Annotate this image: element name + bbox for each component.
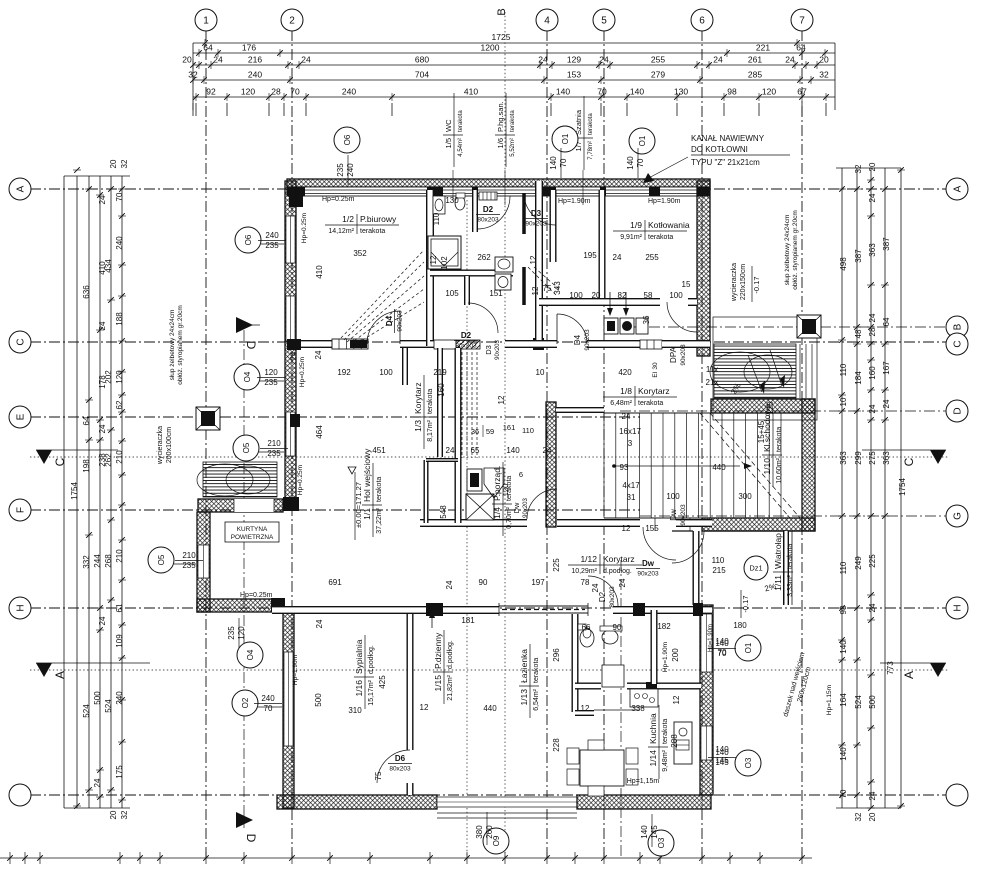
svg-text:244: 244 <box>93 554 102 568</box>
svg-text:KURTYNA: KURTYNA <box>237 526 268 533</box>
svg-text:80x203: 80x203 <box>389 766 411 773</box>
svg-text:130: 130 <box>445 196 459 205</box>
svg-text:24: 24 <box>868 603 877 612</box>
svg-text:24: 24 <box>213 55 223 65</box>
svg-text:1/10: 1/10 <box>762 458 772 475</box>
svg-text:Korytarz: Korytarz <box>603 554 635 564</box>
svg-text:Łazienka: Łazienka <box>519 649 529 683</box>
svg-text:Hp=1.90m: Hp=1.90m <box>292 655 299 685</box>
svg-text:20: 20 <box>109 159 118 168</box>
svg-text:O5: O5 <box>242 442 251 453</box>
svg-text:terakota: terakota <box>648 234 673 241</box>
svg-text:EI 30: EI 30 <box>652 362 659 378</box>
svg-text:140: 140 <box>640 825 649 839</box>
svg-text:451: 451 <box>372 446 386 455</box>
svg-text:235: 235 <box>264 378 278 387</box>
svg-text:120: 120 <box>762 87 776 97</box>
svg-text:10: 10 <box>839 397 848 406</box>
svg-text:Hp=0.25m: Hp=0.25m <box>240 592 273 599</box>
svg-text:32: 32 <box>854 812 863 821</box>
svg-text:0,70m²: 0,70m² <box>506 506 513 528</box>
svg-text:524: 524 <box>104 699 113 713</box>
svg-text:268: 268 <box>104 554 113 568</box>
svg-text:terakota: terakota <box>588 113 594 135</box>
svg-text:12: 12 <box>497 395 506 404</box>
svg-text:225: 225 <box>868 554 877 568</box>
svg-text:210: 210 <box>115 450 124 464</box>
svg-text:90x203: 90x203 <box>680 344 687 366</box>
svg-text:180: 180 <box>733 621 747 630</box>
svg-text:Hp=0.25m: Hp=0.25m <box>297 465 304 495</box>
svg-text:80x203: 80x203 <box>477 217 499 224</box>
svg-text:6: 6 <box>699 16 705 27</box>
svg-text:410: 410 <box>315 265 324 279</box>
svg-text:220x150cm: 220x150cm <box>740 264 747 300</box>
svg-text:1/5: 1/5 <box>444 138 453 148</box>
svg-text:12: 12 <box>531 286 540 295</box>
svg-text:32: 32 <box>854 164 863 173</box>
svg-text:Kuchnia: Kuchnia <box>648 713 658 744</box>
svg-text:24: 24 <box>543 446 552 455</box>
svg-text:obłóż. styropianem gr.20cm: obłóż. styropianem gr.20cm <box>177 305 184 384</box>
svg-text:12: 12 <box>420 703 429 712</box>
svg-text:POWIETRZNA: POWIETRZNA <box>231 534 274 541</box>
svg-text:524: 524 <box>854 695 863 709</box>
svg-text:240: 240 <box>346 163 355 177</box>
svg-text:D6: D6 <box>395 754 406 763</box>
svg-text:10,60m²: 10,60m² <box>776 457 783 483</box>
svg-text:24: 24 <box>314 350 323 359</box>
svg-text:90x203: 90x203 <box>680 504 687 526</box>
svg-text:Wiatrołap: Wiatrołap <box>773 533 783 569</box>
svg-text:200x100cm: 200x100cm <box>166 427 173 463</box>
svg-text:1754: 1754 <box>70 482 79 500</box>
svg-text:235: 235 <box>182 561 196 570</box>
svg-text:636: 636 <box>82 285 91 299</box>
svg-text:90x203: 90x203 <box>397 310 404 332</box>
svg-text:terakota: terakota <box>427 389 434 414</box>
svg-text:H: H <box>953 604 964 611</box>
svg-text:32: 32 <box>120 810 129 819</box>
svg-text:A: A <box>53 671 67 679</box>
svg-text:Hp=1.90m: Hp=1.90m <box>648 198 681 205</box>
svg-text:182: 182 <box>657 622 671 631</box>
svg-text:7: 7 <box>799 16 805 27</box>
svg-text:11x: 11x <box>706 365 718 374</box>
svg-text:90x203: 90x203 <box>525 221 547 228</box>
svg-text:216: 216 <box>248 55 262 65</box>
svg-text:31: 31 <box>627 493 636 502</box>
svg-text:210: 210 <box>115 549 124 563</box>
svg-text:Dw: Dw <box>669 509 678 521</box>
svg-text:Korytarz: Korytarz <box>413 382 423 414</box>
svg-text:363: 363 <box>868 243 877 257</box>
svg-text:2: 2 <box>289 16 295 27</box>
svg-text:75: 75 <box>543 284 552 293</box>
svg-text:75: 75 <box>374 771 383 780</box>
svg-text:D2: D2 <box>598 591 607 602</box>
svg-text:12: 12 <box>529 255 538 264</box>
svg-text:36: 36 <box>642 315 651 324</box>
svg-text:240: 240 <box>248 70 262 80</box>
svg-text:105: 105 <box>445 289 459 298</box>
svg-text:24: 24 <box>868 791 877 800</box>
svg-text:1754: 1754 <box>898 478 907 496</box>
svg-text:4,54m²: 4,54m² <box>458 138 464 157</box>
svg-text:160: 160 <box>868 366 877 380</box>
svg-text:140: 140 <box>556 87 570 97</box>
svg-text:24: 24 <box>98 616 107 625</box>
svg-text:terakota: terakota <box>510 110 516 132</box>
svg-text:24: 24 <box>713 55 723 65</box>
svg-text:21,82m²: 21,82m² <box>447 674 454 700</box>
svg-text:120: 120 <box>237 626 246 640</box>
svg-text:92: 92 <box>206 87 216 97</box>
svg-text:279: 279 <box>651 70 665 80</box>
svg-text:66: 66 <box>582 623 591 632</box>
svg-text:21x: 21x <box>706 378 719 387</box>
svg-text:Sypialnia: Sypialnia <box>354 639 364 674</box>
svg-text:D3: D3 <box>531 209 542 218</box>
svg-text:15,17m²: 15,17m² <box>368 679 375 705</box>
svg-text:24: 24 <box>613 253 622 262</box>
svg-text:249: 249 <box>854 556 863 570</box>
svg-text:1/14: 1/14 <box>648 750 658 767</box>
svg-text:C: C <box>53 457 67 466</box>
svg-text:363: 363 <box>839 451 848 465</box>
svg-text:90x203: 90x203 <box>523 497 529 517</box>
svg-text:64: 64 <box>882 317 891 326</box>
svg-text:24: 24 <box>445 580 454 589</box>
svg-text:285: 285 <box>748 70 762 80</box>
svg-text:61: 61 <box>115 603 124 612</box>
svg-text:59: 59 <box>486 427 494 436</box>
svg-text:1/13: 1/13 <box>519 689 529 706</box>
svg-text:343: 343 <box>553 281 562 295</box>
svg-text:773: 773 <box>886 661 895 675</box>
svg-text:70: 70 <box>636 158 645 167</box>
svg-text:58: 58 <box>644 291 653 300</box>
svg-text:500: 500 <box>314 693 323 707</box>
svg-text:110: 110 <box>839 363 848 376</box>
svg-text:140: 140 <box>715 745 729 754</box>
svg-text:176: 176 <box>242 43 256 53</box>
svg-text:24: 24 <box>301 55 311 65</box>
svg-text:210: 210 <box>182 551 196 560</box>
svg-text:Hp=1.90m: Hp=1.90m <box>708 624 714 652</box>
svg-text:288: 288 <box>670 734 679 748</box>
svg-text:terakota: terakota <box>360 228 385 235</box>
svg-text:P.dzienny: P.dzienny <box>433 632 443 669</box>
svg-text:O4: O4 <box>246 649 255 660</box>
svg-text:704: 704 <box>415 70 429 80</box>
svg-text:24: 24 <box>93 778 102 787</box>
svg-text:12: 12 <box>672 695 681 704</box>
svg-text:P.biurowy: P.biurowy <box>360 214 397 224</box>
svg-text:B: B <box>496 8 508 15</box>
svg-text:O1: O1 <box>561 133 570 144</box>
svg-text:P.hg.san.: P.hg.san. <box>496 101 505 132</box>
svg-text:12: 12 <box>429 255 438 264</box>
svg-text:255: 255 <box>651 55 665 65</box>
svg-text:D3: D3 <box>484 345 493 355</box>
svg-text:O4: O4 <box>243 371 252 382</box>
svg-text:548: 548 <box>439 505 448 519</box>
svg-text:299: 299 <box>854 451 863 465</box>
svg-text:151: 151 <box>489 289 503 298</box>
svg-text:120: 120 <box>241 87 255 97</box>
svg-text:terakota: terakota <box>638 400 663 407</box>
svg-text:8,17m²: 8,17m² <box>427 419 434 441</box>
svg-text:37,22m²: 37,22m² <box>376 507 383 533</box>
svg-text:terakota: terakota <box>776 427 783 452</box>
svg-text:A: A <box>16 185 27 192</box>
svg-text:1/6: 1/6 <box>496 138 505 148</box>
svg-text:500: 500 <box>93 691 102 705</box>
svg-text:F: F <box>16 507 27 513</box>
svg-text:Hp=0.25m: Hp=0.25m <box>301 213 308 243</box>
svg-text:48: 48 <box>854 329 863 338</box>
svg-text:129: 129 <box>567 55 581 65</box>
svg-text:Hp=1.90m: Hp=1.90m <box>558 198 591 205</box>
svg-text:Dw: Dw <box>642 559 655 568</box>
svg-text:Hp=1.15m: Hp=1.15m <box>826 685 833 715</box>
svg-text:90x203: 90x203 <box>584 329 591 351</box>
svg-text:140: 140 <box>715 637 729 646</box>
svg-text:363: 363 <box>882 451 891 465</box>
svg-text:7,78m²: 7,78m² <box>588 141 594 160</box>
svg-text:d.podłog.: d.podłog. <box>447 640 454 669</box>
svg-text:140: 140 <box>626 156 635 170</box>
svg-text:140: 140 <box>549 156 558 170</box>
svg-text:70: 70 <box>559 158 568 167</box>
svg-text:Hp=1.90m: Hp=1.90m <box>662 642 669 672</box>
svg-text:24: 24 <box>622 412 631 421</box>
svg-text:410: 410 <box>98 261 107 275</box>
svg-text:9,48m²: 9,48m² <box>662 749 669 771</box>
svg-text:410: 410 <box>464 87 478 97</box>
svg-text:D: D <box>953 407 964 414</box>
svg-text:E: E <box>16 413 27 420</box>
svg-text:6,48m²: 6,48m² <box>610 400 632 407</box>
svg-text:90: 90 <box>613 623 622 632</box>
svg-text:524: 524 <box>82 704 91 718</box>
svg-text:20: 20 <box>819 55 829 65</box>
svg-text:D2: D2 <box>461 331 472 340</box>
svg-text:24: 24 <box>98 321 107 330</box>
svg-text:DPA: DPA <box>669 346 678 363</box>
svg-text:WC: WC <box>444 119 453 132</box>
svg-text:82: 82 <box>618 291 627 300</box>
svg-text:62: 62 <box>115 400 124 409</box>
svg-text:wycieraczka: wycieraczka <box>157 426 164 465</box>
svg-text:70: 70 <box>115 192 124 201</box>
svg-text:d.podłog.: d.podłog. <box>603 568 632 575</box>
svg-text:109: 109 <box>115 634 124 648</box>
svg-text:Dz1: Dz1 <box>749 564 762 573</box>
svg-text:691: 691 <box>328 578 342 587</box>
svg-text:98: 98 <box>727 87 737 97</box>
svg-text:słup żelbetowy 24x24cm: słup żelbetowy 24x24cm <box>784 215 791 286</box>
svg-text:G: G <box>953 512 964 520</box>
svg-text:210: 210 <box>267 439 281 448</box>
svg-text:215: 215 <box>712 566 726 575</box>
svg-text:100: 100 <box>379 368 393 377</box>
svg-text:20: 20 <box>868 812 877 821</box>
svg-text:Dw: Dw <box>512 502 521 513</box>
svg-text:425: 425 <box>378 675 387 689</box>
svg-text:O6: O6 <box>244 234 253 245</box>
svg-text:20: 20 <box>182 55 192 65</box>
svg-text:1/8: 1/8 <box>620 386 632 396</box>
svg-text:O1: O1 <box>744 642 753 653</box>
svg-text:65: 65 <box>471 446 480 455</box>
svg-text:140: 140 <box>839 747 848 761</box>
svg-text:100: 100 <box>669 291 683 300</box>
svg-text:24: 24 <box>618 578 627 587</box>
svg-text:440: 440 <box>483 704 497 713</box>
svg-text:145: 145 <box>715 756 729 765</box>
svg-text:120: 120 <box>264 368 278 377</box>
svg-text:225: 225 <box>552 558 561 572</box>
svg-text:262: 262 <box>477 253 491 262</box>
svg-text:90x203: 90x203 <box>637 571 659 578</box>
svg-text:70: 70 <box>264 704 273 713</box>
svg-text:1/12: 1/12 <box>580 554 597 564</box>
svg-text:C: C <box>16 338 27 345</box>
svg-text:80x203: 80x203 <box>455 343 477 350</box>
svg-text:200: 200 <box>671 648 680 662</box>
svg-text:Hol wejściowy: Hol wejściowy <box>362 448 372 502</box>
svg-text:1/2: 1/2 <box>342 214 354 224</box>
svg-text:-0.17: -0.17 <box>741 595 750 612</box>
svg-text:KANAŁ NAWIEWNY: KANAŁ NAWIEWNY <box>691 134 765 143</box>
svg-text:Kotłowania: Kotłowania <box>648 220 690 230</box>
svg-text:B: B <box>953 323 964 330</box>
svg-text:300: 300 <box>738 492 752 501</box>
svg-text:161: 161 <box>503 423 516 432</box>
svg-text:1/1: 1/1 <box>362 508 372 520</box>
svg-text:D4: D4 <box>573 334 582 345</box>
svg-text:90: 90 <box>479 578 488 587</box>
svg-text:24: 24 <box>315 619 324 628</box>
svg-text:terakota: terakota <box>458 110 464 132</box>
svg-text:DO KOTŁOWNI: DO KOTŁOWNI <box>691 145 748 154</box>
svg-text:wycieraczka: wycieraczka <box>731 263 738 302</box>
svg-text:12: 12 <box>581 704 590 713</box>
svg-text:93: 93 <box>620 463 629 472</box>
svg-text:64: 64 <box>82 416 91 425</box>
svg-text:80x203: 80x203 <box>609 586 616 608</box>
svg-text:464: 464 <box>315 425 324 439</box>
svg-text:387: 387 <box>854 249 863 263</box>
svg-text:240: 240 <box>115 236 124 250</box>
svg-text:1/4: 1/4 <box>492 507 502 519</box>
svg-text:28: 28 <box>271 87 281 97</box>
svg-text:24: 24 <box>98 195 107 204</box>
svg-text:d.podłog.: d.podłog. <box>368 645 375 674</box>
svg-text:6,54m²: 6,54m² <box>533 688 540 710</box>
svg-text:178: 178 <box>98 375 107 389</box>
svg-text:O6: O6 <box>343 134 352 145</box>
svg-text:obłóż. styropianem gr.20cm: obłóż. styropianem gr.20cm <box>792 210 799 289</box>
svg-text:680: 680 <box>415 55 429 65</box>
svg-text:terakota: terakota <box>533 658 540 683</box>
svg-text:275: 275 <box>868 451 877 465</box>
svg-text:255: 255 <box>645 253 659 262</box>
svg-text:15: 15 <box>682 280 691 289</box>
svg-text:500: 500 <box>868 695 877 709</box>
svg-text:221: 221 <box>756 43 770 53</box>
svg-text:310: 310 <box>348 706 362 715</box>
svg-text:235: 235 <box>227 626 236 640</box>
svg-text:332: 332 <box>82 555 91 569</box>
svg-text:1/15: 1/15 <box>433 675 443 692</box>
svg-text:260: 260 <box>485 825 494 839</box>
svg-text:167: 167 <box>882 361 891 375</box>
svg-text:O3: O3 <box>744 757 753 768</box>
svg-text:70: 70 <box>718 648 727 657</box>
svg-text:TYPU "Z" 21x21cm: TYPU "Z" 21x21cm <box>691 158 760 167</box>
svg-text:130: 130 <box>674 87 688 97</box>
svg-text:A: A <box>902 671 916 679</box>
svg-text:238: 238 <box>98 453 107 467</box>
svg-text:terakota: terakota <box>506 476 513 501</box>
svg-text:słup żelbetowy 24x24cm: słup żelbetowy 24x24cm <box>169 310 176 381</box>
svg-text:24: 24 <box>882 399 891 408</box>
svg-text:352: 352 <box>353 249 367 258</box>
svg-text:24: 24 <box>868 313 877 322</box>
svg-text:24: 24 <box>868 193 877 202</box>
svg-text:32: 32 <box>120 159 129 168</box>
svg-text:420: 420 <box>618 368 632 377</box>
svg-text:12: 12 <box>622 524 631 533</box>
svg-text:1200: 1200 <box>481 43 500 53</box>
svg-text:192: 192 <box>337 368 351 377</box>
svg-text:24: 24 <box>868 404 877 413</box>
svg-text:1725: 1725 <box>492 32 511 42</box>
svg-text:188: 188 <box>115 312 124 326</box>
svg-text:1/3: 1/3 <box>413 420 423 432</box>
svg-text:102: 102 <box>440 256 449 270</box>
svg-text:100: 100 <box>666 492 680 501</box>
svg-text:C: C <box>953 340 964 347</box>
svg-text:261: 261 <box>748 55 762 65</box>
svg-text:D2: D2 <box>483 205 494 214</box>
svg-text:5: 5 <box>601 16 607 27</box>
svg-text:387: 387 <box>882 237 891 251</box>
svg-text:1: 1 <box>203 16 209 27</box>
svg-text:4: 4 <box>544 16 550 27</box>
svg-text:16x17: 16x17 <box>619 427 641 436</box>
svg-text:20: 20 <box>109 810 118 819</box>
svg-text:240: 240 <box>261 694 275 703</box>
svg-text:195: 195 <box>583 251 597 260</box>
svg-text:235: 235 <box>265 241 279 250</box>
svg-text:3,33m²: 3,33m² <box>787 574 794 596</box>
svg-text:20: 20 <box>868 162 877 171</box>
svg-text:160: 160 <box>437 383 446 397</box>
svg-text:14,12m²: 14,12m² <box>328 228 354 235</box>
svg-text:9,91m²: 9,91m² <box>620 234 642 241</box>
svg-text:terakota: terakota <box>376 477 383 502</box>
svg-text:140: 140 <box>506 446 520 455</box>
svg-text:164: 164 <box>839 693 848 707</box>
svg-text:155: 155 <box>645 524 659 533</box>
svg-text:153: 153 <box>567 70 581 80</box>
svg-text:296: 296 <box>552 648 561 662</box>
svg-text:181: 181 <box>461 616 475 625</box>
